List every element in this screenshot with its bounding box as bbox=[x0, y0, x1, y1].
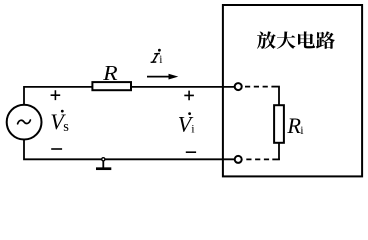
svg-text:i: i bbox=[159, 54, 162, 66]
svg-text:s: s bbox=[63, 119, 69, 135]
svg-text:R: R bbox=[102, 61, 118, 85]
svg-text:R: R bbox=[286, 113, 301, 138]
